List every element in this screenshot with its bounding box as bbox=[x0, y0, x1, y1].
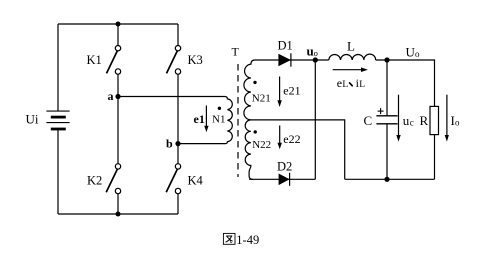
arrow e21 bbox=[277, 77, 281, 108]
svg-text:Ui: Ui bbox=[26, 112, 39, 127]
svg-text:U: U bbox=[406, 45, 416, 60]
svg-text:b: b bbox=[166, 137, 173, 151]
label eL iL bbox=[337, 76, 366, 90]
node uo bbox=[307, 44, 318, 63]
wire left rail lower bbox=[57, 130, 59, 215]
label Uo bbox=[406, 45, 421, 60]
switch K2 bbox=[106, 164, 121, 214]
switch K4 bbox=[166, 164, 181, 214]
svg-text:a: a bbox=[108, 89, 114, 103]
winding N22 bbox=[245, 120, 252, 179]
wire bottom rail bbox=[58, 213, 178, 215]
svg-text:R: R bbox=[420, 113, 429, 128]
node junction top rail bbox=[116, 22, 121, 27]
diode D2 bbox=[279, 173, 290, 186]
svg-text:D2: D2 bbox=[277, 160, 292, 174]
svg-text:o: o bbox=[455, 118, 460, 128]
inductor L bbox=[329, 54, 376, 60]
arrow e1 bbox=[204, 106, 208, 133]
wire top rail bbox=[58, 23, 178, 25]
capacitor C bbox=[376, 60, 397, 179]
plus sign capacitor bbox=[378, 108, 384, 114]
wire center tap bbox=[251, 120, 345, 179]
node junction C bottom bbox=[384, 177, 389, 182]
diode D1 bbox=[278, 53, 291, 66]
wire D2 row bbox=[249, 178, 315, 180]
svg-text:e1: e1 bbox=[194, 112, 205, 126]
svg-text:o: o bbox=[415, 49, 420, 59]
node b bbox=[166, 137, 181, 151]
winding N1 primary bbox=[118, 97, 232, 144]
label uc bbox=[403, 113, 414, 128]
svg-text:D1: D1 bbox=[278, 39, 293, 53]
resistor R bbox=[430, 106, 439, 179]
svg-text:K3: K3 bbox=[188, 53, 203, 67]
svg-text:N22: N22 bbox=[252, 139, 271, 151]
caption figure number bbox=[223, 233, 259, 247]
svg-text:e: e bbox=[337, 76, 342, 90]
svg-text:e22: e22 bbox=[283, 132, 300, 146]
node junction bottom rail bbox=[116, 212, 121, 217]
wire D2 cathode riser bbox=[314, 60, 316, 179]
svg-text:K1: K1 bbox=[87, 53, 102, 67]
wire L to corner bbox=[376, 60, 435, 106]
svg-text:L: L bbox=[342, 80, 348, 90]
polarity dot N21 bbox=[253, 81, 256, 84]
wire D1 row bbox=[278, 59, 328, 61]
wire a column bbox=[117, 74, 119, 164]
svg-text:L: L bbox=[347, 39, 355, 54]
arrow e22 bbox=[278, 126, 282, 150]
svg-text:T: T bbox=[232, 45, 240, 59]
arrow Io bbox=[445, 95, 449, 142]
svg-text:N21: N21 bbox=[252, 93, 271, 105]
svg-text:u: u bbox=[403, 113, 410, 128]
winding N21 bbox=[244, 60, 279, 120]
svg-text:K2: K2 bbox=[87, 174, 102, 188]
node a bbox=[108, 89, 121, 103]
svg-text:e21: e21 bbox=[283, 84, 300, 98]
svg-text:N1: N1 bbox=[212, 114, 225, 126]
arrow eL iL bbox=[333, 67, 368, 72]
svg-text:1-49: 1-49 bbox=[236, 233, 259, 247]
svg-text:o: o bbox=[314, 48, 318, 58]
svg-text:L: L bbox=[359, 80, 365, 90]
arrow uc bbox=[396, 95, 400, 142]
svg-text:c: c bbox=[410, 118, 414, 128]
switch K1 bbox=[107, 24, 121, 74]
battery Ui bbox=[46, 111, 69, 129]
svg-text:K4: K4 bbox=[188, 174, 204, 188]
polarity dot N22 bbox=[254, 130, 257, 133]
svg-text:C: C bbox=[364, 113, 373, 128]
wire output bottom rail bbox=[345, 178, 435, 180]
wire b column bbox=[177, 74, 179, 164]
switch K3 bbox=[167, 24, 181, 74]
wire left rail upper bbox=[57, 24, 59, 111]
node junction L-C bbox=[384, 57, 389, 62]
label Io bbox=[451, 113, 461, 128]
polarity dot N1 bbox=[218, 107, 221, 110]
transformer core bbox=[237, 64, 239, 177]
